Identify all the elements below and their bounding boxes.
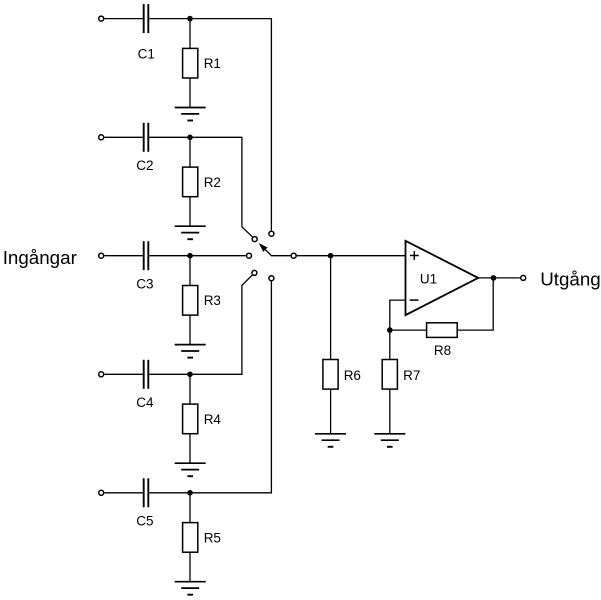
- svg-text:R6: R6: [344, 368, 361, 383]
- svg-text:Utgång: Utgång: [540, 269, 601, 290]
- svg-text:C4: C4: [136, 395, 154, 410]
- svg-text:U1: U1: [420, 272, 437, 287]
- svg-text:C1: C1: [138, 46, 155, 61]
- svg-text:C5: C5: [136, 514, 153, 529]
- svg-text:R5: R5: [204, 530, 221, 545]
- svg-text:R1: R1: [204, 56, 221, 71]
- svg-text:R4: R4: [204, 412, 222, 427]
- svg-text:R2: R2: [204, 175, 221, 190]
- svg-text:R7: R7: [403, 368, 420, 383]
- svg-text:R3: R3: [204, 293, 221, 308]
- svg-text:C3: C3: [136, 277, 153, 292]
- svg-text:C2: C2: [136, 158, 153, 173]
- svg-text:R8: R8: [434, 343, 451, 358]
- svg-text:Ingångar: Ingångar: [3, 247, 77, 268]
